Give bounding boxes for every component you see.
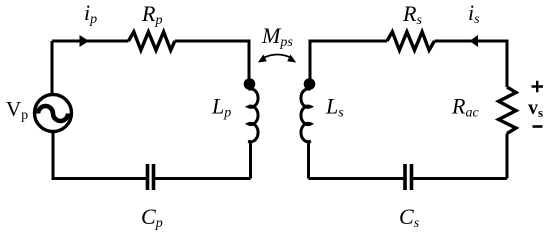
resistor R_s [387, 32, 434, 50]
current arrow i_p [80, 35, 90, 47]
polarity dot primary [244, 78, 256, 90]
resistor R_ac [499, 87, 516, 134]
mutual coupling arrow M_ps [262, 55, 293, 59]
svg-text:Rac: Rac [451, 94, 479, 121]
capacitor C_s [405, 164, 412, 190]
wire: left loop bottom right segment [154, 177, 251, 180]
wire: source top lead [51, 41, 54, 95]
wire: right loop bottom left segment [309, 177, 406, 180]
wire: right loop right vertical lower [506, 134, 509, 179]
inductor L_p [248, 89, 258, 179]
svg-text:Vp: Vp [6, 97, 28, 123]
wire: right loop bottom right segment [412, 177, 508, 180]
svg-text:Cs: Cs [399, 204, 420, 231]
label minus [533, 125, 543, 128]
resistor R_p [129, 32, 175, 50]
svg-text:Lp: Lp [211, 94, 231, 121]
wire: left loop top segment left [52, 40, 129, 43]
inductor L_s [301, 89, 311, 179]
wire: right loop top segment left [310, 40, 387, 43]
capacitor C_p [148, 164, 154, 190]
wire: left loop right vertical to dot [248, 40, 251, 81]
polarity dot secondary [304, 78, 316, 90]
wire: right loop left vertical to dot [309, 40, 312, 81]
wire: right loop top segment right [434, 40, 507, 43]
wire: right loop right vertical upper [506, 40, 509, 88]
svg-text:vs: vs [528, 97, 543, 120]
svg-text:Cp: Cp [141, 204, 163, 231]
svg-text:is: is [468, 0, 480, 27]
svg-text:Mps: Mps [261, 23, 293, 50]
svg-text:ip: ip [84, 0, 97, 27]
svg-text:Rs: Rs [402, 1, 422, 28]
label plus [532, 81, 544, 93]
AC source V_p [35, 95, 72, 132]
wire: left loop bottom left segment [53, 133, 148, 179]
current arrow i_s [470, 35, 479, 47]
wire: left loop top segment right [175, 40, 249, 43]
svg-text:Ls: Ls [325, 94, 344, 121]
svg-text:Rp: Rp [141, 1, 162, 28]
